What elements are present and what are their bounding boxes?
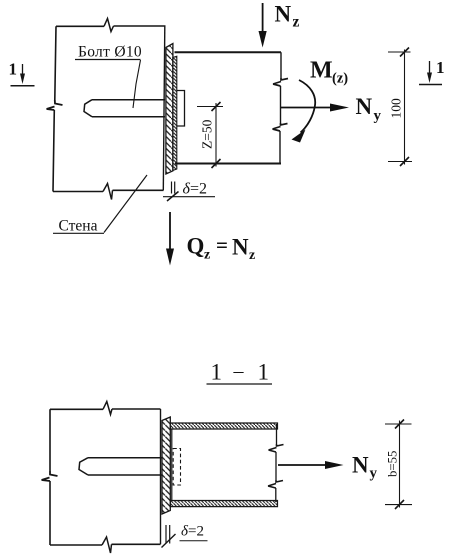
channel right edge break (upper) [269,444,284,452]
leader line from bolt label to bolt [133,60,141,108]
svg-text:Болт Ø10: Болт Ø10 [78,44,142,61]
svg-text:Q: Q [187,234,205,259]
svg-text:z: z [249,248,255,263]
svg-text:1: 1 [9,60,18,79]
wall (section) top edge with break [50,408,161,410]
svg-text:Z=50: Z=50 [200,119,215,149]
thin end plate (top view), hatched [173,56,177,170]
svg-text:Стена: Стена [59,218,98,235]
svg-text:M: M [310,58,333,84]
svg-text:(z): (z) [332,71,348,87]
wall bottom edge break mark [103,184,113,200]
svg-text:1: 1 [211,360,223,385]
bolt (top view) shaft [92,100,165,117]
dimension b=55 [385,423,412,425]
wall section top edge break mark [103,402,112,415]
svg-text:δ=2: δ=2 [183,181,207,198]
force N_y arrow (section) [278,464,327,466]
wall (top view) left edge with break [53,26,56,191]
force Q_z arrow [169,212,171,249]
dimension 100 (right side) [388,51,411,53]
dimension delta=2 (section) [166,525,170,544]
force N_y arrow (top view) [281,107,332,109]
channel top flange (section), hatched [170,423,277,429]
dimension delta=2 (top view) [172,182,175,194]
wall left edge break mark [47,100,63,110]
svg-text:–: – [233,360,245,382]
hidden bracket (section, dashed) [173,449,180,486]
anchor plate (section), hatched [162,417,170,514]
moment M_(z) arc arrow [299,80,315,133]
channel right edge (section) with breaks [275,424,278,502]
dimension Z=50 [197,106,223,108]
svg-text:100: 100 [389,98,404,119]
svg-text:y: y [374,108,382,124]
wall top edge break mark [104,19,114,32]
channel beam (top view) bottom edge [175,163,281,165]
wall (section) left edge with break [49,409,51,545]
svg-text:y: y [370,466,378,482]
svg-text:=: = [216,233,228,257]
svg-text:N: N [275,2,292,27]
anchor plate (top view), hatched [166,44,173,175]
force N_z arrow [262,3,264,32]
svg-text:δ=2: δ=2 [181,524,204,540]
svg-text:N: N [356,94,373,119]
bolt (section) shaft [88,458,162,475]
channel web inner line (section) [171,429,173,501]
svg-text:b=55: b=55 [386,451,400,477]
channel bottom flange (section), hatched [170,501,277,507]
wall (top view) bottom edge with break [53,190,164,191]
svg-text:1: 1 [436,58,445,77]
channel beam (top view) right edge with breaks [280,52,281,163]
beam right edge break mark (upper) [273,78,288,86]
bolt (section) pointed tip [79,458,88,475]
wall section bottom edge break mark [102,537,112,553]
wall (top view) top edge with break [56,25,166,27]
svg-text:1: 1 [258,360,270,385]
wall (section) bottom edge with break [50,543,161,546]
channel right edge break (lower) [268,480,283,488]
svg-text:z: z [293,14,300,31]
svg-text:N: N [232,235,249,260]
bracket / nut (top view) [177,91,185,127]
wall section left edge break mark [42,471,58,481]
wall (section) right edge [160,409,162,544]
svg-text:z: z [204,248,210,263]
wall (top view) right edge [163,26,165,190]
beam right edge break mark (lower) [273,123,288,131]
bolt (top view) pointed tip [84,100,92,117]
channel beam (top view) top edge [175,51,282,53]
svg-text:N: N [352,452,369,477]
